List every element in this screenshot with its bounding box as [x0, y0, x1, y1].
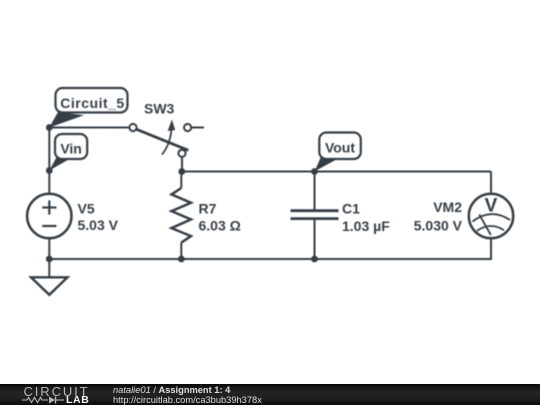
CircuitLab logo wordmark	[24, 384, 90, 405]
label V5 value	[78, 201, 119, 234]
junction dot: switch common / R7 / top rail	[178, 168, 185, 175]
label SW3	[144, 101, 175, 117]
svg-text:Vout: Vout	[325, 140, 355, 156]
wire: VM2 bottom drop	[490, 238, 492, 260]
node Vin junction dot	[46, 167, 53, 174]
wire: VM2 top drop	[490, 172, 492, 195]
CircuitLab logo resistor-diode glyph	[22, 397, 64, 404]
svg-text:SW3: SW3	[144, 101, 175, 117]
label R7 value	[199, 201, 241, 234]
ground	[31, 259, 68, 295]
voltmeter VM2	[469, 194, 513, 238]
switch SW3	[129, 120, 204, 172]
junction dot: C1 bottom	[311, 256, 318, 263]
svg-text:R7: R7	[199, 201, 217, 217]
wire: bottom rail	[49, 258, 491, 260]
svg-text:6.03 Ω: 6.03 Ω	[199, 218, 241, 234]
node flag Vin	[49, 134, 87, 171]
svg-text:LAB: LAB	[66, 394, 89, 405]
node Vout junction dot	[311, 168, 318, 175]
node flag Circuit_5	[49, 88, 127, 128]
label C1 value	[342, 201, 390, 235]
junction dot: R7 bottom	[178, 256, 185, 263]
svg-text:1.03 µF: 1.03 µF	[342, 218, 390, 234]
svg-text:5.030 V: 5.030 V	[414, 218, 463, 234]
junction dot: ground / V5 / bottom rail	[46, 256, 53, 263]
wire: V5 bottom to ground rail	[48, 238, 50, 259]
svg-text:Vin: Vin	[60, 141, 82, 157]
svg-text:VM2: VM2	[433, 199, 462, 215]
svg-text:5.03 V: 5.03 V	[78, 217, 119, 233]
label VM2 value	[414, 199, 463, 234]
capacitor C1	[291, 172, 339, 260]
wire: top rail from switch common to VM2 corner	[182, 171, 491, 173]
voltage source V5	[27, 194, 71, 238]
wire: top-left horizontal from Vin rail to switch throw 1	[49, 127, 129, 129]
svg-text:V5: V5	[78, 201, 95, 217]
wire: left rail vertical from node A down to V5 top	[48, 128, 50, 195]
svg-text:Circuit_5: Circuit_5	[60, 95, 124, 111]
resistor R7	[172, 172, 192, 260]
node A junction dot (Circuit_5 attach)	[46, 124, 53, 131]
node flag Vout	[315, 133, 361, 172]
svg-text:C1: C1	[342, 201, 360, 217]
footer bar	[0, 384, 540, 405]
